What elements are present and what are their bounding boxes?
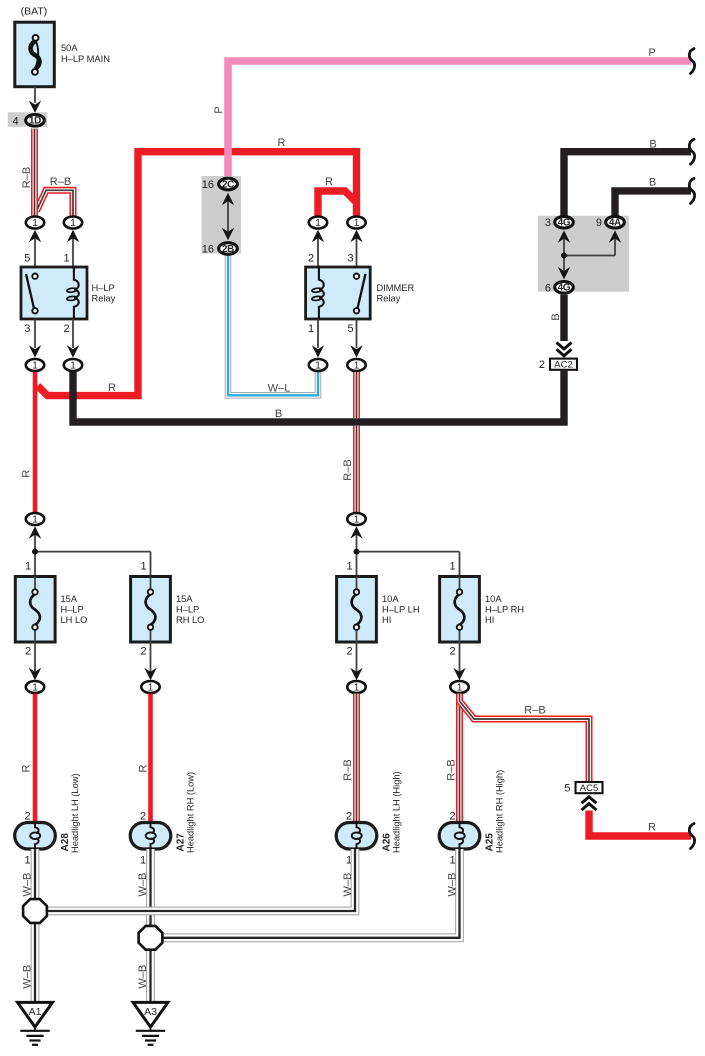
svg-text:R: R	[648, 822, 656, 834]
svg-text:R: R	[108, 382, 116, 394]
svg-text:Relay: Relay	[92, 293, 116, 303]
svg-text:16: 16	[202, 243, 214, 255]
svg-text:R–B: R–B	[342, 459, 354, 480]
svg-text:2C: 2C	[222, 179, 234, 190]
svg-text:2: 2	[346, 811, 352, 823]
svg-text:HI: HI	[382, 615, 391, 625]
wire W-B headlight A25 to junction J2	[151, 849, 460, 938]
svg-text:4: 4	[12, 115, 18, 127]
wire R-B from 1D to H-LP relay pin 5 connector	[31, 129, 38, 216]
wire R-B from dimmer pin 5 to fuse connector	[353, 372, 360, 418]
svg-text:H–LP: H–LP	[92, 283, 115, 293]
break symbol B wire 1	[689, 139, 694, 164]
break symbol pink wire	[689, 49, 694, 74]
wire R to headlight LH low	[33, 694, 38, 823]
svg-text:AC5: AC5	[580, 783, 598, 794]
svg-text:1: 1	[457, 683, 463, 694]
headlight A26 Headlight LH (High)	[336, 771, 401, 853]
connector 1 (dimmer pin 5)	[356, 319, 358, 348]
wire R thick from AC5 to right break	[589, 811, 691, 837]
svg-text:W–B: W–B	[21, 965, 33, 989]
junction box (gray) 4G/4A	[538, 216, 629, 292]
connector 6 4G	[555, 282, 574, 294]
svg-text:W–L: W–L	[268, 382, 291, 394]
svg-text:LH LO: LH LO	[61, 615, 88, 625]
svg-text:1: 1	[148, 683, 154, 694]
svg-text:1: 1	[450, 855, 456, 867]
wire W-B J2 to ground A3	[146, 938, 155, 1003]
svg-text:R: R	[138, 764, 150, 772]
wire R-B to headlight LH high	[353, 694, 360, 823]
svg-text:2: 2	[308, 253, 314, 265]
svg-text:R: R	[325, 176, 333, 188]
svg-text:P: P	[213, 106, 225, 113]
svg-text:A1: A1	[29, 1006, 42, 1018]
svg-text:1: 1	[32, 218, 38, 229]
svg-text:1: 1	[140, 855, 146, 867]
connector 9 4A	[606, 216, 625, 228]
svg-text:2: 2	[25, 646, 31, 658]
svg-text:4A: 4A	[609, 218, 621, 229]
fuse 50A H-LP MAIN	[15, 22, 110, 87]
svg-text:W–B: W–B	[342, 873, 354, 897]
wire R loop to dimmer relay pin 2	[318, 191, 357, 216]
connector 1 (dimmer pin 2)	[317, 236, 319, 267]
ground A1	[18, 1002, 53, 1044]
svg-text:2B: 2B	[222, 244, 234, 255]
svg-text:2: 2	[450, 646, 456, 658]
internal wiring 4G/4A junction	[558, 230, 621, 279]
svg-text:9: 9	[596, 217, 602, 229]
svg-text:Headlight LH (Low): Headlight LH (Low)	[70, 773, 80, 853]
svg-text:5: 5	[564, 782, 570, 794]
svg-text:1: 1	[141, 561, 147, 573]
wire B from 6 4G to AC2	[560, 295, 567, 341]
svg-text:1: 1	[32, 515, 38, 526]
relay H-LP	[21, 267, 116, 319]
svg-text:B: B	[649, 139, 656, 151]
svg-text:H–LP RH: H–LP RH	[485, 605, 524, 615]
svg-text:W–B: W–B	[21, 873, 33, 897]
svg-text:R: R	[20, 470, 32, 478]
svg-text:2: 2	[539, 359, 545, 371]
svg-text:R–B: R–B	[524, 705, 545, 717]
svg-text:Headlight RH (High): Headlight RH (High)	[495, 770, 505, 853]
headlight A27 Headlight RH (Low)	[130, 772, 195, 853]
svg-text:R: R	[278, 137, 286, 149]
svg-text:10A: 10A	[382, 594, 399, 604]
svg-text:1D: 1D	[29, 116, 41, 127]
headlight A25 Headlight RH (High)	[439, 770, 504, 853]
svg-text:3: 3	[545, 217, 551, 229]
svg-text:1: 1	[70, 218, 76, 229]
svg-text:P: P	[648, 47, 655, 59]
svg-text:3: 3	[347, 253, 353, 265]
ground A3	[133, 1002, 168, 1044]
fuse 15A H-LP LH LO	[15, 577, 87, 643]
connector 1 (H-LP relay pin 1)	[72, 236, 74, 267]
svg-text:Headlight LH (High): Headlight LH (High)	[392, 771, 402, 853]
svg-text:2: 2	[141, 646, 147, 658]
double arrow from AC5	[582, 797, 597, 804]
connector 1 (H-LP relay pin 5)	[34, 236, 36, 267]
connector 1 above HI fuses	[356, 532, 358, 577]
svg-text:3: 3	[24, 323, 30, 335]
svg-text:W–B: W–B	[446, 873, 458, 897]
svg-text:W–B: W–B	[137, 873, 149, 897]
wire P (pink)	[228, 61, 691, 177]
svg-text:6: 6	[545, 282, 551, 294]
svg-text:2: 2	[25, 811, 31, 823]
fuse 10A H-LP LH HI	[337, 577, 420, 643]
svg-text:15A: 15A	[61, 594, 78, 604]
break symbol B wire 2	[689, 178, 694, 203]
wire R-B branch to AC5	[460, 701, 590, 782]
svg-text:B: B	[275, 408, 282, 420]
wire from fuse to connector 1D	[34, 87, 36, 103]
svg-text:(BAT): (BAT)	[21, 5, 48, 17]
svg-text:2: 2	[347, 646, 353, 658]
wire W-B headlight A26 to junction J1	[35, 849, 355, 911]
svg-text:1: 1	[347, 561, 353, 573]
svg-text:Headlight RH (Low): Headlight RH (Low)	[186, 772, 196, 853]
fuse 15A H-LP RH LO	[131, 577, 205, 643]
svg-text:H–LP: H–LP	[176, 605, 199, 615]
break symbol R wire	[689, 824, 694, 849]
svg-text:Relay: Relay	[377, 293, 401, 303]
svg-text:1: 1	[70, 361, 76, 372]
svg-text:DIMMER: DIMMER	[377, 283, 415, 293]
svg-text:10A: 10A	[485, 594, 502, 604]
svg-text:1: 1	[25, 561, 31, 573]
svg-text:1: 1	[354, 683, 360, 694]
svg-text:2: 2	[450, 811, 456, 823]
svg-text:1: 1	[450, 561, 456, 573]
svg-text:R–B: R–B	[446, 759, 458, 780]
relay DIMMER	[306, 267, 415, 319]
svg-text:4G: 4G	[558, 218, 571, 229]
svg-text:AC2: AC2	[554, 360, 572, 371]
connectors 1 below fuses	[34, 642, 36, 672]
wire W-B headlight A27 to junction J2	[146, 849, 155, 938]
double arrow into AC2	[557, 343, 572, 350]
svg-text:B: B	[550, 313, 562, 320]
svg-text:1: 1	[63, 253, 69, 265]
svg-text:RH LO: RH LO	[176, 615, 204, 625]
connector 1 above LO fuses	[34, 532, 36, 577]
svg-text:2: 2	[140, 811, 146, 823]
svg-text:1: 1	[354, 515, 360, 526]
junction J2 (octagon)	[139, 926, 163, 950]
svg-text:16: 16	[202, 179, 214, 191]
headlight A28 Headlight LH (Low)	[15, 773, 80, 853]
svg-text:1: 1	[354, 361, 360, 372]
svg-text:1: 1	[32, 361, 38, 372]
wire B from AC2 to H-LP relay pin 2	[73, 370, 564, 422]
svg-text:1: 1	[32, 683, 38, 694]
fuse 10A H-LP RH HI	[440, 577, 525, 643]
svg-text:B: B	[649, 176, 656, 188]
connector block 16 2C / 16 2B	[202, 176, 242, 255]
connector 3 4G	[555, 216, 574, 228]
wire W-B headlight A28 to junction J1	[31, 849, 40, 911]
svg-text:R–B: R–B	[50, 176, 71, 188]
svg-text:HI: HI	[485, 615, 494, 625]
wire B thick to 3 4G	[564, 152, 691, 216]
svg-text:W–B: W–B	[137, 965, 149, 989]
wire B thick to 9 4A	[615, 191, 691, 216]
svg-text:1: 1	[315, 218, 321, 229]
svg-text:A3: A3	[144, 1006, 157, 1018]
connector 4 1D	[8, 112, 48, 127]
svg-text:5: 5	[24, 253, 30, 265]
svg-text:1: 1	[308, 323, 314, 335]
svg-text:4G: 4G	[558, 283, 571, 294]
svg-text:1: 1	[354, 218, 360, 229]
connector 2 AC2	[539, 359, 577, 371]
junction J1 (octagon)	[23, 899, 47, 923]
wire R to headlight RH low	[148, 694, 153, 823]
svg-text:1: 1	[25, 855, 31, 867]
connector 1 (H-LP relay pin 2)	[72, 319, 74, 348]
wire W-L from 2B to dimmer relay pin 1 connector	[228, 256, 318, 395]
svg-text:R: R	[20, 764, 32, 772]
wire R-B to headlight RH high	[456, 694, 463, 823]
wire R from relay pin 3 to fuse connector	[33, 372, 38, 513]
svg-text:H–LP LH: H–LP LH	[382, 605, 420, 615]
connector 1 (dimmer pin 3)	[356, 236, 358, 267]
wire W-B J1 to ground A1	[31, 911, 40, 1002]
svg-text:H–LP: H–LP	[61, 605, 84, 615]
svg-text:15A: 15A	[176, 594, 193, 604]
svg-text:2: 2	[63, 323, 69, 335]
wire R-B branch to H-LP relay pin 1 connector	[37, 190, 74, 215]
connector 5 AC5	[564, 782, 602, 794]
connector 1 (dimmer pin 1)	[317, 319, 319, 348]
connector 1 (H-LP relay pin 3)	[34, 319, 36, 348]
svg-text:H–LP MAIN: H–LP MAIN	[61, 54, 110, 64]
svg-text:R–B: R–B	[21, 167, 33, 188]
svg-text:50A: 50A	[61, 43, 78, 53]
wire R thick: main feed loop	[38, 152, 357, 396]
svg-text:R–B: R–B	[342, 759, 354, 780]
svg-text:5: 5	[347, 323, 353, 335]
svg-text:1: 1	[315, 361, 321, 372]
